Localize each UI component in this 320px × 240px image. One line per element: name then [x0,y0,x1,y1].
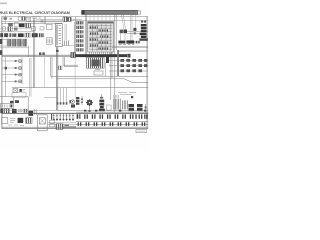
ticks under dark row [119,43,134,45]
connector C401b [129,108,135,111]
vline right bottom [145,104,147,112]
harness bundle HB1 [114,99,120,110]
dark separator line [2,112,149,114]
wire y97.5 [44,97,57,99]
sensor bus vertical [21,58,23,85]
wire pair C vertical [75,17,76,59]
connector row right dark [118,40,140,43]
connector stack CS3 [99,94,105,111]
frame inner left wire [2,17,4,129]
dark bus bar [75,54,127,57]
wire rail [0,31,34,33]
bottom left row2 [2,117,32,123]
bottom right bus wires [56,111,148,113]
fuse block FB2 [4,33,8,37]
wire rails top-left [2,22,62,24]
connector C101 [19,17,22,20]
small mark x40.5 [41,20,44,22]
switch assembly SW2 [13,89,25,93]
connector CS4 light [107,105,112,110]
small hatch box [58,66,62,70]
small box right R [133,28,136,31]
sensor S2 [2,67,22,70]
wires right extra [118,50,148,52]
wire drops to dark row [120,33,125,40]
relay K1 dark [19,23,25,27]
dark dot [131,96,133,98]
connector stack CS2 [76,97,79,105]
blower wires [58,88,67,104]
resistor block R2 [47,38,53,45]
wire drops right [131,14,136,40]
wire mesh mid top [30,20,63,22]
corner bracket mid [63,57,78,67]
connector strip P1 top right [82,10,141,14]
tiny label above C301 [95,69,100,71]
lamp row [52,113,74,120]
coil pack L1 [0,39,28,46]
pillar P3 [117,50,119,76]
harness column CC1 [76,21,84,51]
bottom bus lines [2,127,149,128]
inline connector C301 [94,71,103,75]
wire drops from strip [115,14,116,112]
connector C202 [124,30,127,34]
sensor S3 [2,73,22,76]
wire rail 2 [0,28,33,30]
connector C401a [129,104,135,107]
marks right of C506 [64,125,69,126]
harness bundle HB2 [123,100,128,109]
filler mark e [40,27,44,30]
bus end cap [127,54,130,58]
blower feet [57,102,68,104]
frame border [2,17,148,129]
relay K2 dark [18,33,24,37]
small boxes x50 [50,120,55,123]
fuse block FB1 [0,33,3,37]
relay block RB below bus [87,58,105,69]
wire drop to C201 [121,14,125,29]
faint vline x44.5 [44,57,46,88]
connector C103 [63,17,67,22]
wires y122.8 [48,123,76,125]
wire pair F vertical faint [65,24,67,40]
box C504 [2,117,8,123]
hatch C105 [8,27,12,31]
wires below dark row [112,46,148,48]
wire below coils [0,47,29,49]
wire comb strip to U2 [90,14,110,21]
hatch cluster below F [64,41,69,46]
connector C106 [25,23,30,27]
terminal box TB1 [1,103,14,108]
svg-text:RUS ELECTRICAL CIRCUIT DIAGRAM: RUS ELECTRICAL CIRCUIT DIAGRAM [0,10,70,15]
filler mark f [24,109,28,112]
marks F1 [32,16,36,18]
riser to wires [51,57,52,79]
dark tab left lower [0,50,2,55]
connector C402b [137,108,143,111]
distributor D1 gear [86,99,93,112]
fuse F1 [36,16,40,19]
long wire y87.6 [12,87,148,89]
junction blob J1 [71,52,75,57]
wire y45.6 [62,45,74,47]
wire C lower faint [74,58,76,99]
resistor block R1 [47,24,52,29]
hatch ticks left of HB1 [114,95,119,98]
wires through fuse grid [109,61,148,71]
connector C402a [137,104,143,107]
fuse block FB4 [13,34,16,37]
connector C505 [26,118,32,124]
long wire with bend [56,79,148,83]
relay K5 [12,109,17,113]
light line above [2,110,56,112]
tiny labels right middle [118,93,136,95]
fuse box F0 [26,17,31,21]
instrument cluster U2 [88,22,114,52]
small mark below [134,32,137,34]
control unit U1 tall box [56,23,63,46]
connector C104 [68,17,71,21]
marks on bus wires [84,110,146,112]
filler mark c [14,28,18,31]
filler mark a [4,18,7,20]
corner wire bottom-left [0,97,28,110]
vline x13.5 [13,97,15,104]
sensor S1 [2,60,22,63]
wire corner below RB [105,62,107,76]
box left small [3,27,6,30]
filler mark b [10,18,13,20]
label box [12,93,26,98]
connector blobs above TB1 [10,101,14,103]
logo smudge top-left [0,3,7,5]
junction blob left [5,67,7,70]
wires right of C506 [63,126,76,127]
long wire upper [51,75,149,77]
taps on bus [39,52,41,55]
connector C102 [22,17,25,21]
junction blob left [8,23,13,26]
wire pair E vertical [111,48,112,100]
dark pillar P2 [106,55,109,63]
bottom right dash row2 [78,122,146,126]
bottom right dash row1 [77,114,148,119]
right connector stack CS1 [139,20,147,40]
relay K6 [28,111,33,116]
sensor S4 [2,80,22,83]
fuse block FB3 [9,33,13,37]
wire pair D vertical [85,14,86,57]
wire pair B vertical [30,58,32,97]
vline left x5.7 [5,57,7,97]
vpair [35,109,36,115]
connector C107 [25,33,30,37]
wire comb U2 to bus [90,52,112,54]
connector C201 [120,30,124,34]
connector C506 [56,124,63,130]
thin wire with marks [81,96,83,105]
fuse band row [0,33,44,37]
fuse FB5 [0,109,3,113]
footer part number box [136,130,147,133]
wire pair A vertical [33,18,34,88]
page background [0,0,150,150]
module U3 tall box [38,115,48,131]
marks under row2 [8,124,24,127]
wire pair H vertical [57,47,58,110]
marks [10,119,15,123]
main bus left double [2,55,75,56]
relay K7 [18,118,24,123]
wires right of C202 [127,31,148,33]
relay K3 [32,33,35,37]
relay K4 [39,33,44,37]
tap on wire H [56,50,59,52]
fuse grid right [120,59,147,72]
vline pair x44.3 [44,17,45,25]
blower motor M1 [69,100,74,104]
box C105a [14,22,18,26]
ignition switch SW1 [4,15,8,24]
bottom left row1 [0,109,36,116]
dark tab left [0,39,2,44]
wire to strip [71,19,148,21]
connector below motor [71,104,75,107]
wire stub [28,46,30,57]
marks [18,110,23,112]
filler mark d [32,27,36,31]
bottom right rails [76,121,148,124]
connector C501 [4,109,9,113]
frame inner right wire [145,17,147,129]
